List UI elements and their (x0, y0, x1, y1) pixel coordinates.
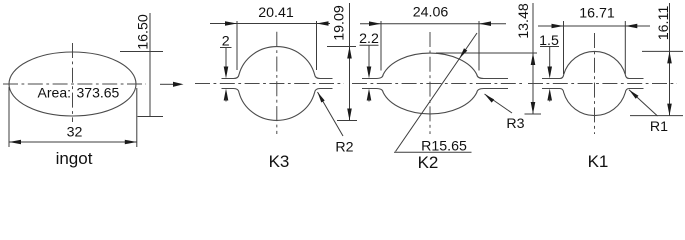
svg-text:2: 2 (222, 34, 230, 50)
svg-text:ingot: ingot (56, 149, 93, 168)
dimension 19.09 (K3 height) (327, 3, 357, 121)
K1 vertical centerline (594, 33, 596, 134)
dimension 32 (ingot width) (9, 87, 137, 147)
dimension 13.48 (K2 height) (436, 3, 541, 114)
svg-text:R2: R2 (335, 140, 353, 156)
radius leader R15.65 (K2 main arc) (394, 33, 477, 155)
radius leader R1 (K1 side fillet) (629, 90, 668, 135)
K2 label (418, 153, 439, 172)
K3 vertical centerline (276, 32, 278, 134)
svg-text:K1: K1 (588, 152, 609, 171)
ingot horizontal centerline (3, 83, 146, 85)
ingot area label (38, 85, 120, 101)
K1 horizontal centerline (528, 83, 677, 85)
dimension 1.5 (K1 roll gap) (539, 33, 559, 102)
ingot label (56, 149, 93, 168)
dimension 2 (K3 roll gap) (220, 34, 232, 102)
dimension 16.50 (ingot height) (120, 13, 163, 117)
svg-text:R3: R3 (506, 116, 524, 132)
K2 bottom roll contour (362, 89, 508, 114)
svg-text:16.11: 16.11 (656, 6, 672, 41)
dimension 24.06 (K2 cavity width) (360, 5, 506, 71)
svg-text:16.50: 16.50 (136, 14, 152, 50)
svg-text:R1: R1 (650, 119, 668, 135)
K1 bottom roll contour (542, 89, 644, 116)
flow arrow (160, 82, 184, 87)
svg-text:32: 32 (67, 125, 83, 141)
svg-text:R15.65: R15.65 (421, 139, 467, 155)
K2 top roll contour (362, 53, 508, 78)
dimension 16.11 (K1 height) (630, 3, 683, 116)
K3 label (269, 152, 290, 171)
svg-text:20.41: 20.41 (258, 5, 294, 21)
radius leader R2 (K3 side fillet) (318, 92, 354, 156)
svg-text:K2: K2 (418, 153, 439, 172)
svg-text:16.71: 16.71 (579, 5, 615, 21)
ingot vertical centerline (72, 43, 74, 122)
K1 label (588, 152, 609, 171)
K3 bottom roll contour (222, 89, 333, 121)
K2 horizontal centerline (352, 83, 522, 85)
K1 top roll contour (542, 51, 644, 78)
svg-text:373.65: 373.65 (77, 85, 120, 101)
K3 horizontal centerline (195, 83, 344, 85)
K3 top roll contour (222, 47, 333, 79)
dimension 20.41 (K3 cavity width) (210, 5, 330, 70)
svg-text:Area:: Area: (38, 85, 71, 101)
svg-text:13.48: 13.48 (516, 3, 532, 39)
svg-text:K3: K3 (269, 152, 290, 171)
ingot ellipse outline (9, 52, 136, 116)
svg-text:24.06: 24.06 (413, 5, 449, 21)
svg-text:19.09: 19.09 (332, 5, 348, 41)
svg-text:2.2: 2.2 (359, 31, 379, 47)
radius leader R3 (K2 side fillet) (485, 94, 525, 132)
dimension 2.2 (K2 roll gap) (359, 31, 379, 102)
dimension 16.71 (K1 cavity width) (538, 5, 650, 74)
K2 vertical centerline (429, 32, 431, 134)
svg-text:1.5: 1.5 (539, 33, 559, 49)
